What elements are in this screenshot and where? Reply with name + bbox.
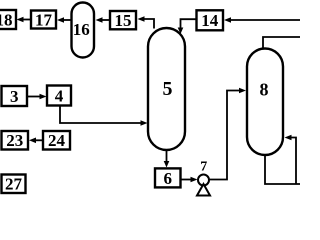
svg-text:17: 17 bbox=[35, 11, 53, 30]
wire 3 to 4 bbox=[27, 94, 47, 100]
svg-text:24: 24 bbox=[48, 131, 66, 150]
wire 24 to 23 bbox=[29, 138, 43, 144]
svg-text:18: 18 bbox=[0, 11, 13, 30]
box 3 bbox=[2, 86, 28, 106]
wire vessel 5 bottom to 6 bbox=[164, 150, 170, 168]
wire from right edge into 14 bbox=[224, 17, 300, 23]
wire vessel 8 top to right edge bbox=[263, 37, 300, 49]
vessel 8 bbox=[247, 49, 283, 156]
svg-text:4: 4 bbox=[55, 87, 64, 106]
box 24 bbox=[43, 131, 70, 150]
wire pump 7 to vessel 8 bbox=[209, 88, 246, 180]
box 6 bbox=[155, 168, 181, 188]
box 27 bbox=[2, 175, 26, 194]
box 15 bbox=[110, 11, 136, 30]
wire 4 to vessel 5 feed bbox=[60, 106, 148, 126]
wire 16 to 17 bbox=[57, 17, 72, 23]
svg-text:14: 14 bbox=[201, 11, 219, 30]
vessel 16 bbox=[72, 3, 95, 58]
wire vessel 5 overhead to 15 bbox=[138, 16, 155, 28]
svg-text:6: 6 bbox=[163, 169, 172, 188]
svg-text:8: 8 bbox=[260, 80, 269, 100]
wire 17 to 18 bbox=[17, 17, 32, 23]
svg-text:3: 3 bbox=[10, 87, 19, 106]
vessel 5 bbox=[148, 28, 185, 150]
box 4 bbox=[47, 86, 71, 106]
svg-text:23: 23 bbox=[6, 131, 23, 150]
svg-text:16: 16 bbox=[73, 20, 90, 39]
svg-text:27: 27 bbox=[5, 175, 23, 194]
box 18 bbox=[0, 10, 16, 30]
box 23 bbox=[2, 131, 29, 150]
wire vessel 8 bottoms loop bbox=[265, 135, 300, 184]
box 17 bbox=[31, 11, 56, 30]
svg-text:15: 15 bbox=[115, 11, 132, 30]
wire 6 to pump 7 bbox=[181, 177, 198, 183]
wire 14 to vessel 5 top bbox=[178, 19, 197, 34]
box 14 bbox=[197, 10, 224, 30]
pump 7 bbox=[197, 160, 210, 196]
svg-text:7: 7 bbox=[200, 160, 207, 175]
svg-text:5: 5 bbox=[163, 78, 173, 100]
wire 15 to 16 bbox=[96, 17, 111, 23]
